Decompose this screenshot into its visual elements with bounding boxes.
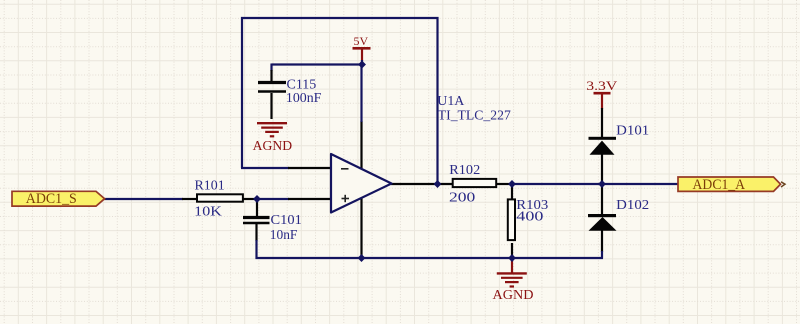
svg-text:R102: R102 — [449, 163, 480, 178]
svg-text:AGND: AGND — [253, 139, 293, 154]
svg-text:400: 400 — [516, 210, 543, 225]
svg-text:TI_TLC_227: TI_TLC_227 — [438, 108, 511, 123]
svg-text:AGND: AGND — [493, 288, 534, 303]
svg-text:C101: C101 — [271, 213, 302, 228]
svg-text:D101: D101 — [616, 124, 649, 139]
svg-text:ADC1_A: ADC1_A — [693, 177, 746, 193]
svg-text:U1A: U1A — [437, 94, 465, 109]
svg-text:3.3V: 3.3V — [586, 78, 618, 93]
svg-text:C115: C115 — [287, 77, 317, 92]
svg-text:200: 200 — [449, 191, 475, 206]
svg-text:10K: 10K — [194, 205, 222, 220]
svg-text:R101: R101 — [195, 178, 225, 193]
svg-text:10nF: 10nF — [270, 228, 298, 243]
svg-text:ADC1_S: ADC1_S — [26, 191, 77, 207]
svg-text:5V: 5V — [354, 34, 369, 48]
svg-text:D102: D102 — [616, 198, 649, 213]
svg-text:100nF: 100nF — [286, 91, 322, 106]
